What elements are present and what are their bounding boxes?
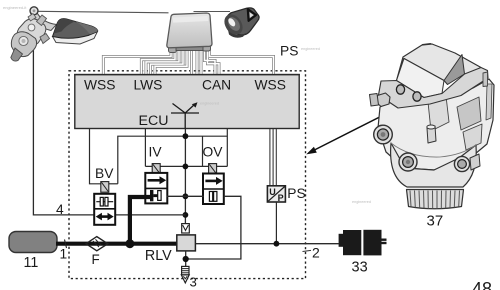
node dot L2: [183, 133, 189, 139]
svg-text:engineered: engineered: [301, 47, 320, 51]
valve IV body: [145, 173, 167, 204]
PS sensor triple wires: [270, 129, 276, 186]
svg-text:2: 2: [312, 244, 320, 260]
pilot check symbol M: [182, 224, 190, 233]
svg-text:PS: PS: [287, 186, 305, 201]
BV closed position bars: [96, 201, 113, 203]
node junction supply: [125, 239, 134, 248]
pressure sensor PS box: [267, 186, 285, 203]
thick supply pipe: [56, 242, 177, 246]
thick pipe to IV: [130, 197, 152, 244]
arrow from valve 37 to system box: [309, 114, 387, 154]
ECU connector module top-middle: [167, 12, 230, 53]
gray harness wires from connector module (casing): [103, 50, 273, 76]
lever arc: [31, 12, 57, 31]
ECU switch arrowhead: [192, 102, 198, 107]
valve OV body: [203, 174, 224, 205]
IV open arrow: [148, 179, 160, 182]
wire OV label box left: [202, 136, 204, 166]
svg-text:U: U: [269, 187, 276, 197]
wire ECU to BV solenoid left: [90, 129, 102, 184]
pipe IV-OV link: [167, 195, 204, 197]
relay valve RLV: [177, 235, 196, 251]
ribbed skirt: [407, 190, 464, 209]
exhaust silencer 3: [181, 266, 189, 283]
node dot exhaust junction: [183, 256, 189, 262]
solenoid OV: [209, 164, 217, 174]
wire bus L2: [118, 136, 228, 184]
svg-text:P: P: [278, 193, 284, 203]
svg-text:1: 1: [60, 247, 68, 262]
svg-text:WSS: WSS: [84, 78, 115, 93]
node dot valve out: [183, 193, 189, 199]
wire solenoid bus: [145, 165, 227, 167]
left big port: [374, 125, 393, 144]
port 1 tick: [65, 240, 67, 249]
pipe PS down: [275, 202, 277, 244]
OV closed bars outlined: [209, 192, 212, 202]
line to connector plug: [194, 11, 231, 13]
svg-text:PS: PS: [280, 44, 298, 59]
svg-text:11: 11: [24, 255, 39, 271]
valve BV body: [94, 194, 115, 225]
brake chamber 33: [339, 230, 387, 256]
svg-text:3: 3: [190, 275, 197, 290]
solenoid IV: [152, 164, 160, 174]
svg-text:33: 33: [352, 260, 368, 276]
node dot bus: [183, 164, 189, 170]
pipe 4 line: [33, 49, 185, 215]
wire ECU to IV label box: [144, 129, 146, 166]
arrowhead: [306, 147, 317, 155]
ECU switch symbol: [171, 104, 199, 129]
port 2 tick: [303, 250, 312, 251]
valve body cluster: [17, 19, 46, 46]
pipe OV out: [186, 196, 241, 259]
dashed system boundary box: [69, 71, 306, 279]
OV open arrow: [205, 180, 216, 183]
module body: [167, 13, 212, 48]
svg-text:37: 37: [427, 213, 444, 230]
dome lower body: [391, 143, 477, 187]
valve body main casting: [378, 79, 494, 170]
module feet: [169, 44, 177, 53]
svg-text:WSS: WSS: [255, 78, 286, 93]
pedal shoe body: [53, 19, 98, 39]
svg-text:IV: IV: [149, 145, 163, 160]
svg-text:engineered: engineered: [352, 200, 371, 204]
pipe RLV exhaust: [185, 251, 187, 267]
mid port: [399, 153, 417, 171]
wire ECU to OV label box right: [226, 129, 228, 166]
BV open double arrow: [100, 215, 111, 218]
right port: [454, 156, 469, 171]
ECU box top border redraw: [74, 74, 300, 76]
svg-text:engineered-it: engineered-it: [3, 5, 27, 10]
small front stub cylinder: [427, 126, 436, 143]
reservoir 11: [9, 232, 57, 253]
EBS modulator valve 37 illustration: [370, 44, 495, 209]
bottom right stub: [470, 154, 480, 170]
svg-text:OV: OV: [203, 145, 224, 160]
wire ECU switch down: [184, 129, 186, 224]
filter F: [86, 237, 108, 251]
body right facet details: [428, 96, 449, 131]
svg-text:4: 4: [56, 202, 64, 217]
svg-text:LWS: LWS: [134, 78, 163, 93]
pedal shoe sole: [53, 32, 98, 45]
svg-text:BV: BV: [95, 166, 114, 181]
node dot PS junction: [274, 241, 280, 247]
svg-text:F: F: [92, 252, 100, 267]
svg-text:RLV: RLV: [145, 248, 172, 264]
signal line to module: [36, 11, 169, 13]
left hex nut: [377, 93, 391, 107]
solenoid BV: [101, 182, 109, 193]
IV closed bar outlined: [158, 191, 161, 201]
pivot circle: [30, 7, 38, 15]
svg-text:48: 48: [472, 279, 492, 290]
svg-text:CAN: CAN: [202, 78, 231, 93]
IV closed seat black T: [150, 190, 153, 201]
svg-text:ECU: ECU: [139, 113, 169, 129]
gray harness wires white cores: [103, 50, 273, 76]
ECU gray box: [75, 75, 299, 129]
diagnostic connector top-right: [221, 8, 259, 38]
pipe RLV out to 33: [195, 243, 338, 245]
pedal unit illustration top-left: [11, 7, 169, 61]
svg-text:engineered: engineered: [200, 102, 219, 106]
cover flange band with connector holes: [379, 68, 489, 109]
wire BV solenoid right: [109, 183, 118, 185]
right slot: [483, 72, 488, 87]
cover top: [422, 44, 433, 50]
node dot pilot: [183, 212, 189, 218]
